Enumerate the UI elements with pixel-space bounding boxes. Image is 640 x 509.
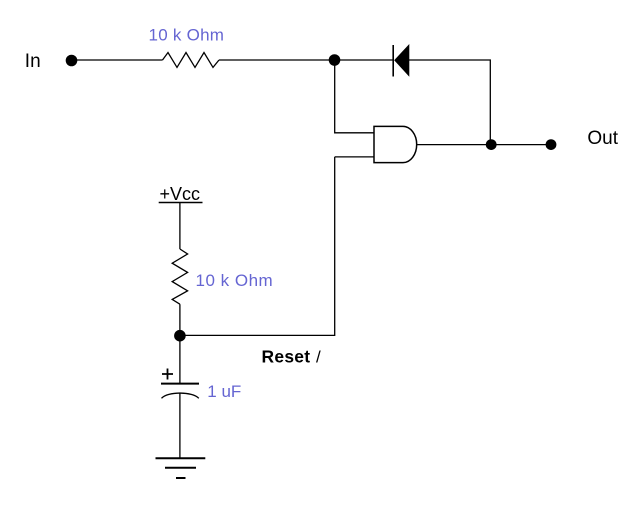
svg-text:+Vcc: +Vcc xyxy=(160,184,201,204)
wire C1 to ground xyxy=(179,393,181,458)
svg-text:1 uF: 1 uF xyxy=(207,382,241,401)
resistor R2 xyxy=(172,249,187,304)
wire diode to right corner xyxy=(409,60,490,145)
wire node Reset to C1 xyxy=(179,336,181,383)
capacitor C1 curved bottom plate xyxy=(162,393,199,398)
wire gate input 2 horizontal xyxy=(335,156,374,158)
node B junction dot at gate output xyxy=(486,139,497,150)
svg-text:In: In xyxy=(25,51,41,72)
node Reset junction dot xyxy=(174,330,186,342)
ground bar 2 xyxy=(165,467,196,469)
wire gate output to Out xyxy=(417,144,546,146)
svg-text:10 k Ohm: 10 k Ohm xyxy=(196,271,274,290)
wire Vcc to R2 xyxy=(179,203,181,249)
svg-text:10 k Ohm: 10 k Ohm xyxy=(149,26,225,45)
diode D1 cathode bar xyxy=(392,45,394,77)
wire node A down to gate input 1 xyxy=(335,60,374,133)
ground bar 3 xyxy=(176,477,186,479)
wire R1 to diode xyxy=(219,59,393,61)
diode D1 triangle xyxy=(395,45,409,76)
capacitor C1 plus sign xyxy=(162,369,173,380)
wire In to R1 xyxy=(77,59,163,61)
svg-text:Reset: Reset xyxy=(262,347,311,367)
resistor R1 xyxy=(163,53,220,68)
svg-text:Out: Out xyxy=(587,128,618,149)
node Out terminal dot xyxy=(546,139,557,150)
power +Vcc rail bar xyxy=(159,202,203,204)
wire node Reset to gate input 2 xyxy=(180,157,335,336)
wire R2 to node Reset xyxy=(179,304,181,336)
ground bar 1 xyxy=(156,457,206,459)
capacitor C1 top plate xyxy=(161,383,199,385)
svg-text:/: / xyxy=(316,348,321,367)
node In terminal dot xyxy=(66,55,78,67)
op gate U1 AND gate body xyxy=(374,126,417,162)
node A junction dot xyxy=(329,54,341,66)
